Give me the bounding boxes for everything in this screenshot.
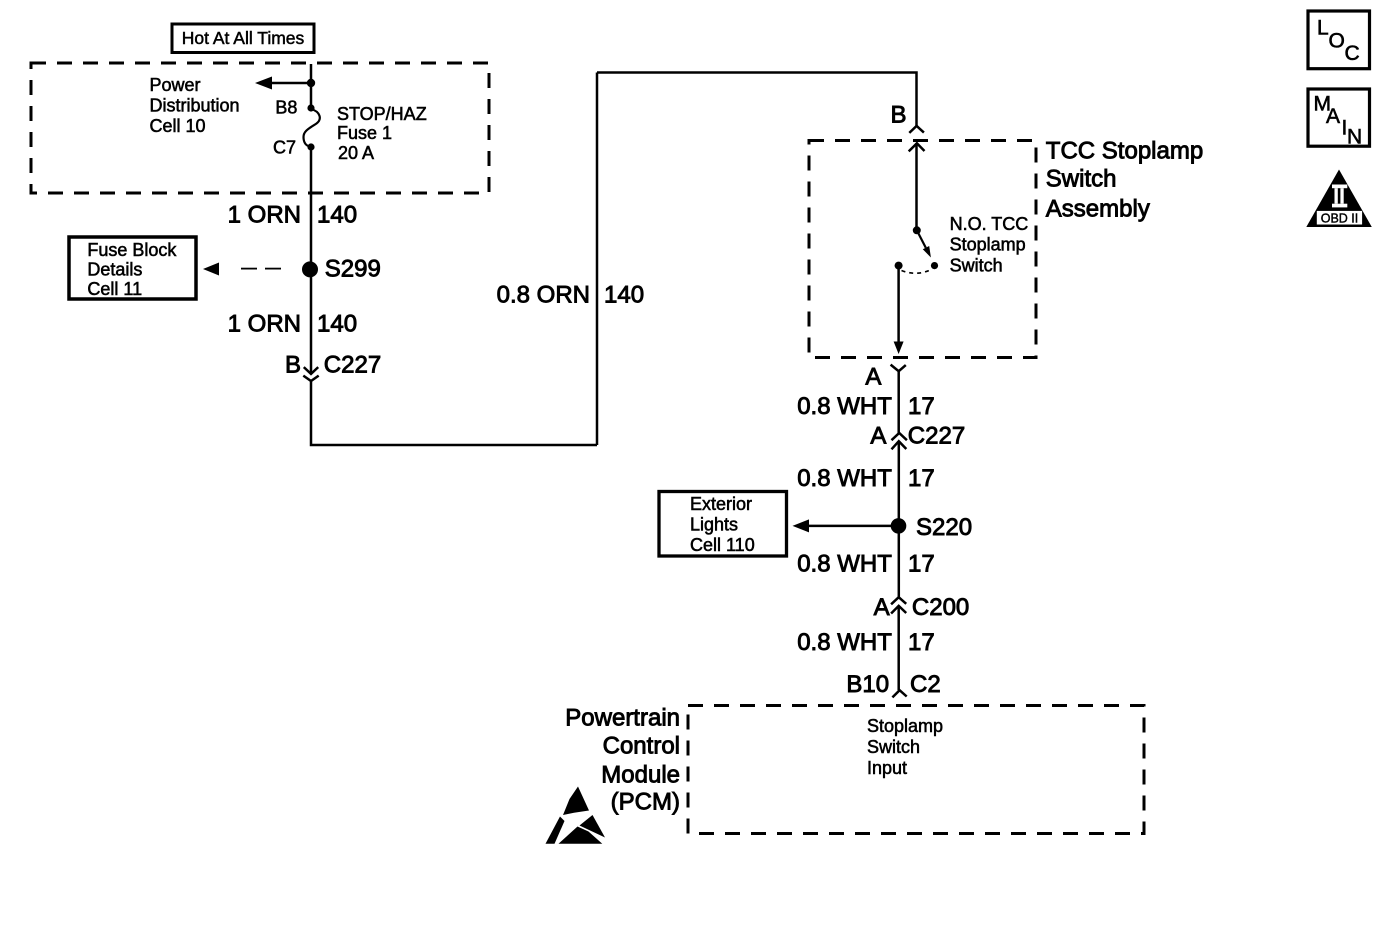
LOC page icon <box>1308 11 1370 69</box>
junction dot at fuse feed <box>307 79 315 87</box>
svg-text:C227: C227 <box>324 352 381 379</box>
svg-text:A: A <box>870 423 886 450</box>
wire label: 0.8 WHT 17 (2) <box>797 465 934 492</box>
svg-text:N: N <box>1347 126 1362 149</box>
svg-text:0.8 WHT: 0.8 WHT <box>797 550 892 577</box>
arrow from S220 to exterior lights <box>793 519 899 532</box>
connector C2 pin B10 at PCM <box>846 671 940 698</box>
wire: from C227 down and across to right riser <box>311 381 597 445</box>
svg-text:B: B <box>890 102 906 129</box>
dashed leader to S299 <box>241 268 281 270</box>
splice S220 <box>891 514 972 541</box>
connector C200 pin A (in-line) <box>874 594 970 621</box>
value label: STOP/HAZ Fuse 1 20 A <box>337 104 427 163</box>
svg-text:Powertrain: Powertrain <box>565 705 680 732</box>
svg-text:Switch: Switch <box>1046 166 1117 193</box>
svg-text:C2: C2 <box>910 671 941 698</box>
svg-text:1 ORN: 1 ORN <box>228 202 301 229</box>
svg-text:0.8 WHT: 0.8 WHT <box>797 629 892 656</box>
TCC stoplamp switch assembly box (dashed) <box>809 141 1036 358</box>
wire label: 1 ORN 140 (lower) <box>228 311 357 338</box>
svg-text:0.8 WHT: 0.8 WHT <box>797 393 892 420</box>
svg-text:C200: C200 <box>912 594 969 621</box>
connector C227 pin A (in-line) <box>870 423 965 450</box>
wire label: 0.8 WHT 17 (4) <box>797 629 934 656</box>
svg-text:A: A <box>865 363 881 390</box>
svg-text:Fuse Block: Fuse Block <box>87 240 177 260</box>
svg-text:Stoplamp: Stoplamp <box>950 235 1026 255</box>
label: TCC Stoplamp Switch Assembly <box>1046 137 1203 222</box>
svg-text:17: 17 <box>908 465 935 492</box>
svg-text:17: 17 <box>908 393 935 420</box>
svg-text:Fuse 1: Fuse 1 <box>337 123 392 143</box>
svg-text:C7: C7 <box>273 137 296 157</box>
svg-text:Cell 11: Cell 11 <box>87 279 142 299</box>
wire label: 1 ORN 140 (upper) <box>228 202 357 229</box>
svg-text:Switch: Switch <box>867 737 920 757</box>
PCM box (dashed) <box>688 706 1144 834</box>
svg-text:Module: Module <box>601 762 680 789</box>
connector pin A below assembly <box>865 363 905 390</box>
wire: 0.8 WHT 17 from C200 to PCM <box>897 606 900 690</box>
svg-text:L: L <box>1317 17 1329 40</box>
svg-text:140: 140 <box>317 202 357 229</box>
svg-text:STOP/HAZ: STOP/HAZ <box>337 104 427 124</box>
label: N.O. TCC Stoplamp Switch <box>950 214 1029 276</box>
svg-text:Power: Power <box>150 75 201 95</box>
wire: 0.8 WHT 17 from C227 to S220 and on to C200 <box>898 441 901 597</box>
connector C227 pin B (left branch) <box>285 352 381 382</box>
switch SW1 N.O. TCC stoplamp switch <box>895 226 939 273</box>
OBD II emission symbol <box>1306 170 1372 228</box>
svg-text:B: B <box>285 352 301 379</box>
svg-text:OBD II: OBD II <box>1321 211 1359 225</box>
svg-text:17: 17 <box>908 550 935 577</box>
power distribution box (dashed) <box>31 63 489 193</box>
wire: 0.8 WHT 17 to C227 <box>897 371 900 433</box>
wire: 1 ORN 140 from fuse C7 down to connector C227 <box>310 147 313 374</box>
arrow from fuse block details toward S299 <box>203 263 219 276</box>
svg-text:Exterior: Exterior <box>690 494 752 514</box>
fuse block details box <box>69 237 196 299</box>
svg-text:Cell 10: Cell 10 <box>150 116 206 136</box>
ESD sensitivity symbol <box>546 787 606 844</box>
wire label: 0.8 ORN 140 <box>497 282 644 309</box>
svg-text:1 ORN: 1 ORN <box>228 311 301 338</box>
svg-text:O: O <box>1329 30 1345 53</box>
svg-text:A: A <box>1326 105 1340 128</box>
wire: top run across to TCC switch <box>597 73 917 126</box>
svg-text:C: C <box>1345 42 1360 65</box>
svg-text:Control: Control <box>603 733 680 760</box>
svg-text:Lights: Lights <box>690 515 738 535</box>
wire: battery feed from Hot At All Times into fuse B8 <box>310 64 313 106</box>
wire: 0.8 ORN 140 riser up <box>596 73 599 446</box>
label: Power Distribution Cell 10 <box>150 75 240 136</box>
svg-text:N.O. TCC: N.O. TCC <box>950 214 1029 234</box>
svg-text:Stoplamp: Stoplamp <box>867 716 943 736</box>
arrow to power distribution <box>255 77 311 90</box>
svg-text:S299: S299 <box>325 256 381 283</box>
svg-text:140: 140 <box>317 311 357 338</box>
pin B8 <box>275 98 314 118</box>
svg-text:C227: C227 <box>908 423 965 450</box>
svg-text:Distribution: Distribution <box>150 95 240 115</box>
svg-text:0.8 ORN: 0.8 ORN <box>497 282 590 309</box>
wire label: 0.8 WHT 17 (1) <box>797 393 934 420</box>
svg-text:S220: S220 <box>916 514 972 541</box>
svg-text:140: 140 <box>604 282 644 309</box>
svg-text:TCC Stoplamp: TCC Stoplamp <box>1046 137 1203 164</box>
svg-text:B8: B8 <box>275 98 297 118</box>
svg-text:Input: Input <box>867 758 907 778</box>
wire: switch output with arrow to box edge <box>894 266 904 354</box>
svg-text:Assembly: Assembly <box>1046 196 1150 223</box>
svg-text:0.8 WHT: 0.8 WHT <box>797 465 892 492</box>
label: Powertrain Control Module (PCM) <box>565 705 680 816</box>
svg-text:20 A: 20 A <box>338 143 374 163</box>
svg-text:Details: Details <box>87 259 142 279</box>
exterior lights box <box>659 492 787 557</box>
svg-text:17: 17 <box>908 629 935 656</box>
svg-text:Switch: Switch <box>950 255 1003 275</box>
wire: switch feed inside assembly <box>915 143 918 227</box>
svg-text:A: A <box>874 594 890 621</box>
label: Stoplamp Switch Input <box>867 716 943 778</box>
svg-text:(PCM): (PCM) <box>611 789 680 816</box>
svg-text:Hot At All Times: Hot At All Times <box>182 28 305 48</box>
label box: Hot At All Times <box>172 24 314 53</box>
fuse F1 STOP/HAZ 20 A <box>304 109 320 147</box>
svg-text:B10: B10 <box>846 671 889 698</box>
wire label: 0.8 WHT 17 (3) <box>797 550 934 577</box>
connector pin B at TCC stoplamp switch assembly <box>890 102 924 152</box>
pin C7 <box>273 137 315 157</box>
splice S299 <box>302 256 381 283</box>
svg-text:Cell 110: Cell 110 <box>690 535 755 555</box>
MAIN page icon <box>1308 89 1370 149</box>
